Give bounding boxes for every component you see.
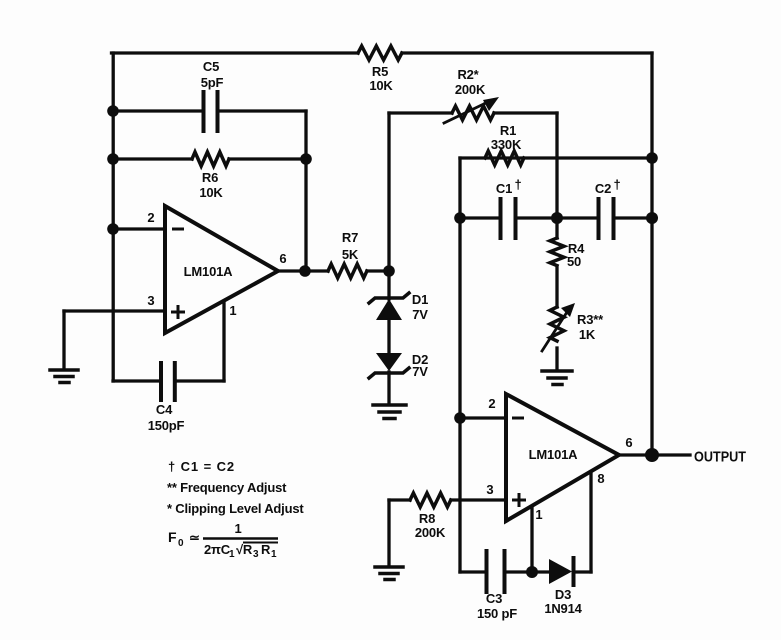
svg-text:150pF: 150pF: [148, 418, 185, 433]
resistor R6: [113, 152, 306, 166]
svg-text:D3: D3: [555, 587, 571, 602]
svg-text:50: 50: [567, 254, 581, 269]
svg-text:≃: ≃: [189, 530, 200, 545]
wire op2 pin2: [460, 416, 506, 419]
capacitor C1: [460, 199, 557, 238]
wire op1 pin2: [113, 227, 165, 230]
op2 plus: [512, 493, 526, 507]
zener D2: [369, 353, 409, 404]
op1 plus: [171, 305, 185, 319]
wire op2 output: [619, 453, 690, 456]
svg-text:10K: 10K: [369, 78, 393, 93]
svg-text:1: 1: [271, 549, 277, 560]
node output: [645, 448, 659, 462]
wire R2 right vertical: [555, 113, 558, 218]
wire R2 row left: [389, 111, 452, 114]
svg-text:200K: 200K: [415, 525, 446, 540]
capacitor C2: [557, 199, 652, 238]
wire top rail left segment: [112, 51, 359, 54]
formula F0: [168, 521, 278, 560]
node C1/C2 mid: [551, 212, 563, 224]
svg-text:2: 2: [147, 210, 154, 225]
resistor R1: [485, 151, 524, 165]
wire R2 branch vertical: [387, 113, 390, 271]
wire R1 row: [460, 156, 652, 159]
wire D1-D2: [387, 320, 390, 353]
ground below R8: [375, 500, 403, 580]
svg-text:R: R: [261, 542, 271, 557]
capacitor C3: [460, 551, 532, 592]
svg-text:C2: C2: [595, 181, 611, 196]
diode D3: [532, 558, 591, 585]
R2 wiper arrow: [444, 97, 499, 123]
op-amp U1 LM101A: [165, 206, 278, 333]
svg-text:1K: 1K: [579, 327, 596, 342]
capacitor C5: [113, 92, 306, 131]
node at C5 left: [107, 105, 119, 117]
svg-text:C5: C5: [203, 59, 219, 74]
wire R2 row right: [494, 111, 557, 114]
svg-text:R8: R8: [419, 511, 435, 526]
svg-text:1: 1: [229, 303, 236, 318]
svg-text:†: †: [613, 177, 620, 192]
ground below R3: [542, 371, 572, 385]
node R1 right: [646, 152, 658, 164]
zener D1: [369, 271, 409, 320]
svg-text:√R: √R: [236, 542, 253, 557]
svg-text:10K: 10K: [199, 185, 223, 200]
svg-text:7V: 7V: [412, 307, 428, 322]
svg-text:† C1 = C2: † C1 = C2: [168, 459, 235, 474]
svg-text:C1: C1: [496, 181, 512, 196]
wire op1 output: [278, 269, 328, 272]
svg-text:5K: 5K: [342, 247, 359, 262]
svg-text:C3: C3: [486, 591, 502, 606]
svg-text:8: 8: [597, 471, 604, 486]
svg-text:R3**: R3**: [577, 312, 604, 327]
svg-text:5pF: 5pF: [201, 75, 224, 90]
svg-text:2πC: 2πC: [204, 542, 231, 557]
svg-text:R5: R5: [372, 64, 388, 79]
wire op2 pin1: [530, 507, 533, 572]
wire left rail of op2 section: [458, 158, 461, 572]
ground op1 input: [50, 311, 78, 383]
svg-text:R2*: R2*: [457, 67, 479, 82]
svg-text:0: 0: [178, 538, 184, 549]
capacitor C4: [113, 363, 224, 400]
ground below D2: [373, 405, 406, 419]
wire C5/R6 right vertical: [304, 111, 307, 271]
svg-text:1N914: 1N914: [544, 601, 582, 616]
svg-text:** Frequency Adjust: ** Frequency Adjust: [167, 480, 287, 495]
wire op1 pin3: [64, 309, 165, 312]
wire op1 pin1: [222, 302, 225, 381]
svg-text:1: 1: [229, 549, 235, 560]
node R7 right: [383, 265, 395, 277]
resistor R7: [328, 264, 367, 278]
svg-text:* Clipping Level Adjust: * Clipping Level Adjust: [167, 501, 304, 516]
node at op1 pin2: [107, 223, 119, 235]
svg-text:R6: R6: [202, 170, 218, 185]
wire top rail right segment: [402, 51, 652, 54]
svg-text:D1: D1: [412, 292, 428, 307]
svg-text:1: 1: [234, 521, 241, 536]
svg-text:330K: 330K: [491, 137, 522, 152]
node C1 left: [454, 212, 466, 224]
wire R7 to node: [367, 269, 389, 272]
svg-text:R1: R1: [500, 123, 516, 138]
op-amp U2 LM101A: [506, 394, 619, 521]
op2 minus: [512, 417, 524, 420]
node C3/D3: [526, 566, 538, 578]
wire left rail: [112, 53, 115, 381]
svg-text:6: 6: [625, 435, 632, 450]
svg-text:R7: R7: [342, 230, 358, 245]
svg-text:3: 3: [253, 549, 259, 560]
svg-text:LM101A: LM101A: [184, 264, 233, 279]
node at R6 right: [300, 153, 312, 165]
svg-text:F: F: [168, 529, 177, 545]
svg-text:1: 1: [535, 507, 542, 522]
node C2 right: [646, 212, 658, 224]
svg-text:3: 3: [486, 482, 493, 497]
resistor R4: [550, 218, 564, 307]
svg-text:7V: 7V: [412, 364, 428, 379]
resistor R2 (variable): [452, 106, 494, 120]
resistor R5: [358, 46, 402, 60]
node op2 pin2: [454, 412, 466, 424]
op1 minus: [172, 228, 184, 231]
resistor R8: [389, 493, 506, 507]
svg-text:2: 2: [488, 396, 495, 411]
node op1 output: [299, 265, 311, 277]
wire right rail: [650, 53, 653, 455]
resistor R3 (variable): [542, 303, 575, 370]
node at R6 left: [107, 153, 119, 165]
svg-text:†: †: [514, 177, 521, 192]
svg-text:3: 3: [147, 293, 154, 308]
svg-text:LM101A: LM101A: [529, 447, 578, 462]
svg-text:C4: C4: [156, 402, 173, 417]
svg-text:150 pF: 150 pF: [477, 606, 517, 621]
svg-text:OUTPUT: OUTPUT: [694, 449, 746, 466]
svg-text:200K: 200K: [455, 82, 486, 97]
svg-text:6: 6: [279, 251, 286, 266]
wire op2 pin8: [589, 472, 592, 572]
